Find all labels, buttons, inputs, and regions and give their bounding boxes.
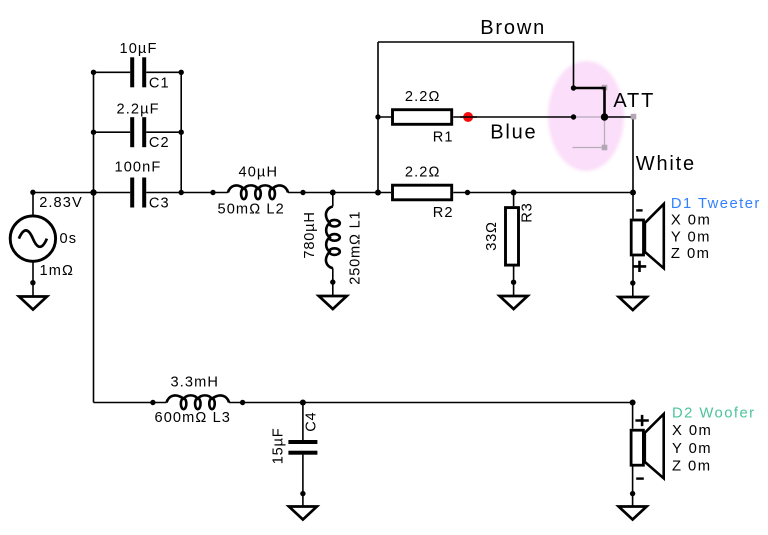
wire woofer drop	[632, 403, 634, 494]
svg-text:R1: R1	[433, 129, 454, 145]
ground at source	[32, 283, 34, 297]
svg-text:40µH: 40µH	[239, 165, 279, 181]
svg-text:Y 0m: Y 0m	[672, 441, 712, 457]
capacitor C4	[288, 440, 317, 444]
svg-text:C2: C2	[149, 135, 170, 151]
node source top	[30, 190, 35, 195]
junction R3 top	[511, 190, 517, 196]
wire R3 leads	[513, 193, 515, 283]
node source bottom	[30, 280, 35, 285]
svg-text:ATT: ATT	[613, 90, 655, 112]
node L3 left	[150, 400, 155, 405]
wire main row (source to tweeter)	[33, 192, 633, 194]
capacitor C3	[130, 178, 134, 208]
svg-text:Brown: Brown	[480, 17, 546, 39]
voltage source V1 2.83V	[10, 216, 55, 261]
wire woofer row	[94, 402, 633, 404]
svg-text:100nF: 100nF	[115, 160, 162, 176]
wire C2 row	[94, 131, 182, 133]
speaker driver D2 woofer symbol	[631, 430, 643, 465]
D2 plus terminal	[635, 415, 648, 426]
node C1 left	[91, 70, 96, 75]
svg-text:780µH: 780µH	[302, 211, 318, 258]
ATT highlight ellipse	[548, 61, 624, 171]
speaker driver D1 tweeter symbol	[631, 220, 643, 255]
wire switch common to White	[605, 117, 634, 193]
probe red dot at R1 output	[463, 112, 473, 122]
svg-text:Y 0m: Y 0m	[671, 229, 711, 245]
svg-text:2.2µF: 2.2µF	[117, 101, 160, 117]
svg-text:R3: R3	[520, 202, 536, 222]
svg-text:2.2Ω: 2.2Ω	[405, 89, 441, 105]
wire Brown net	[378, 42, 574, 88]
node L3 right	[240, 400, 245, 405]
wire L1 leads	[332, 193, 334, 283]
svg-text:C4: C4	[304, 412, 320, 432]
node R3 bottom	[511, 280, 516, 285]
node C2 right	[179, 130, 184, 135]
svg-text:White: White	[636, 153, 696, 175]
svg-text:X 0m: X 0m	[671, 213, 711, 229]
node switch blue contact	[571, 114, 576, 119]
node woofer bottom	[630, 491, 635, 496]
svg-text:Z 0m: Z 0m	[672, 459, 712, 475]
svg-text:C1: C1	[149, 75, 170, 91]
wire tweeter drop	[632, 193, 634, 284]
node L2 right	[300, 190, 305, 195]
node switch common	[601, 113, 608, 120]
svg-text:50mΩ L2: 50mΩ L2	[218, 202, 285, 218]
resistor R2	[393, 185, 452, 200]
ground at L1	[332, 282, 334, 296]
svg-text:Z 0m: Z 0m	[671, 246, 711, 262]
svg-text:Blue: Blue	[490, 121, 537, 143]
switch ATT closed throw (black)	[574, 88, 605, 117]
wire cap bank right vertical	[180, 72, 182, 192]
node C2 left	[91, 130, 96, 135]
svg-text:D1 Tweeter: D1 Tweeter	[671, 196, 761, 212]
wire over red dot	[460, 116, 477, 118]
node L1 bottom	[330, 279, 335, 284]
junction R branch	[375, 190, 381, 196]
D1 minus terminal	[636, 209, 642, 211]
svg-text:C3: C3	[149, 195, 170, 211]
resistor R3	[506, 208, 519, 266]
node C3 right	[179, 190, 184, 195]
svg-text:10µF: 10µF	[120, 41, 158, 57]
node L2 left	[210, 190, 215, 195]
inductor L2	[228, 185, 288, 192]
ground at tweeter	[632, 283, 634, 297]
wire left drop to woofer row	[93, 193, 95, 403]
svg-text:X 0m: X 0m	[672, 423, 712, 439]
junction tweeter top	[630, 190, 636, 196]
inductor L3	[167, 395, 230, 402]
wire Blue net (R1 row)	[378, 116, 574, 118]
junction C4 top	[300, 400, 306, 406]
svg-text:2.2Ω: 2.2Ω	[405, 164, 441, 180]
junction main-caps	[90, 189, 96, 195]
node tweeter bottom	[630, 280, 635, 285]
svg-text:R2: R2	[433, 205, 454, 221]
wire cap bank left vertical	[93, 72, 95, 192]
D2 minus terminal	[636, 477, 644, 479]
svg-text:15µF: 15µF	[271, 428, 287, 465]
wire C4 leads	[302, 403, 304, 494]
capacitor C2	[130, 117, 134, 147]
svg-text:33Ω: 33Ω	[484, 221, 500, 251]
inductor L1	[326, 206, 333, 268]
junction woofer top	[630, 400, 636, 406]
svg-text:3.3mH: 3.3mH	[171, 375, 219, 391]
ground at C4	[302, 493, 304, 507]
switch ATT open throw (gray)	[573, 117, 605, 148]
D1 plus terminal	[633, 261, 646, 272]
ground at R3	[513, 282, 515, 296]
wire C1 row	[94, 71, 182, 73]
ground at woofer	[632, 493, 634, 507]
svg-text:250mΩ L1: 250mΩ L1	[348, 211, 364, 285]
svg-text:0s: 0s	[60, 231, 78, 247]
node R2 right	[465, 190, 470, 195]
node C1 right	[179, 70, 184, 75]
wire source leads	[32, 193, 34, 283]
resistor R1	[393, 110, 452, 125]
junction R1 left	[375, 114, 380, 119]
node switch brown contact	[571, 85, 576, 90]
wire R1 branch vertical	[377, 42, 379, 193]
svg-text:2.83V: 2.83V	[39, 195, 83, 211]
capacitor C1	[130, 57, 134, 87]
node C4 bottom	[300, 491, 305, 496]
junction L1 top	[330, 190, 336, 196]
svg-text:D2 Woofer: D2 Woofer	[672, 406, 756, 422]
svg-text:600mΩ L3: 600mΩ L3	[155, 410, 232, 426]
svg-text:1mΩ: 1mΩ	[40, 263, 74, 279]
